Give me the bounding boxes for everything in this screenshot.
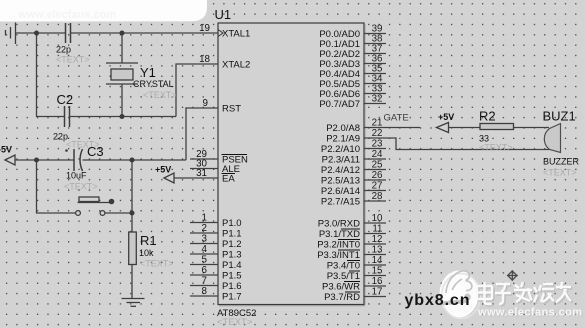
svg-text:P2.6/A14: P2.6/A14	[321, 186, 360, 197]
svg-text:U1: U1	[215, 7, 232, 22]
svg-text:31: 31	[196, 168, 207, 179]
svg-text:13: 13	[372, 245, 383, 256]
svg-text:P3.7/RD: P3.7/RD	[324, 292, 360, 303]
pin stub ALE 30	[190, 168, 218, 170]
power +5V arrow (R2)	[437, 123, 449, 133]
junction (122,33)	[120, 31, 125, 36]
svg-text:CRYSTAL: CRYSTAL	[133, 79, 174, 89]
pin numbers right	[372, 24, 383, 298]
svg-text:23: 23	[372, 139, 383, 150]
wire EA to +5V	[174, 177, 218, 179]
svg-text:1: 1	[202, 213, 207, 224]
svg-text:P3.3/INT1: P3.3/INT1	[317, 250, 360, 261]
pin stubs P1.0-P1.7 (1-8)	[190, 222, 218, 224]
svg-text:C2: C2	[57, 92, 74, 107]
pin stubs P0.0-P0.7 (39-32)	[364, 33, 386, 35]
svg-text:<TEXT>: <TEXT>	[217, 317, 253, 328]
svg-text:-5V: -5V	[0, 145, 12, 155]
svg-text:10: 10	[372, 213, 383, 224]
svg-text:11: 11	[372, 224, 382, 235]
svg-text:18: 18	[199, 54, 210, 65]
svg-text:XTAL1: XTAL1	[222, 29, 250, 40]
power -5V arrow	[5, 155, 15, 165]
junction (122,116.5)	[120, 114, 125, 119]
wire +5V to R2	[449, 127, 480, 129]
wire -5V rail to RST riser	[15, 159, 74, 161]
svg-text:3: 3	[202, 234, 208, 245]
pin names left column	[222, 29, 250, 303]
svg-text:32: 32	[372, 94, 383, 105]
svg-text:14: 14	[372, 255, 383, 266]
junction (36.5,33)	[34, 31, 39, 36]
svg-text:4: 4	[202, 244, 208, 255]
buzzer BUZ1	[544, 124, 560, 153]
svg-text:C3: C3	[87, 144, 104, 159]
svg-text:22: 22	[372, 128, 383, 139]
white erased band top-left	[0, 0, 207, 22]
wire crystal bottom	[121, 84, 123, 117]
pin names right column	[317, 29, 360, 303]
svg-text:P2.1/A9: P2.1/A9	[326, 134, 360, 145]
svg-text:25: 25	[372, 160, 383, 171]
origin marker crosshair	[507, 270, 518, 281]
svg-text:<TEXT>: <TEXT>	[143, 90, 177, 100]
watermark chinese glyph strokes	[478, 283, 572, 305]
svg-text:P1.5: P1.5	[222, 271, 242, 282]
svg-text:R1: R1	[140, 233, 157, 248]
chip U1 body	[218, 23, 364, 305]
svg-text:P0.7/AD7: P0.7/AD7	[319, 99, 360, 110]
svg-text:15: 15	[372, 266, 383, 277]
svg-text:12: 12	[372, 234, 383, 245]
watermark white disc with hand	[440, 271, 479, 318]
svg-text:P2.5/A13: P2.5/A13	[321, 176, 360, 187]
capacitor C3 10uF plates	[74, 149, 83, 171]
svg-text:P1.1: P1.1	[222, 229, 242, 240]
clock marker XTAL1	[218, 30, 223, 37]
wire R2 to buzzer	[514, 127, 550, 129]
resistor R1	[129, 232, 137, 265]
svg-text:XTAL2: XTAL2	[222, 60, 250, 71]
wire GATE net on pin 21	[364, 127, 420, 129]
svg-text:P3.4/T0: P3.4/T0	[327, 261, 360, 272]
svg-text:<TEXT>: <TEXT>	[543, 168, 577, 178]
pin numbers left	[196, 23, 210, 297]
svg-text:P1.4: P1.4	[222, 260, 242, 271]
capacitor C1 22p plates	[66, 23, 71, 43]
ground (rotated, left edge, crystal net)	[6, 23, 16, 45]
capacitor C2 22p plates	[65, 106, 70, 127]
svg-text:9: 9	[203, 98, 208, 109]
junction (132,160)	[130, 158, 135, 163]
svg-text:28: 28	[372, 191, 383, 202]
svg-text:P2.0/A8: P2.0/A8	[326, 123, 360, 134]
svg-text:P1.2: P1.2	[222, 239, 242, 250]
svg-text:P2.7/A15: P2.7/A15	[321, 197, 360, 208]
pin stubs P3.0-P3.7 (10-17)	[364, 222, 386, 224]
wire C2 to XTAL2 riser	[70, 116, 176, 118]
svg-text:BUZ1: BUZ1	[543, 109, 576, 124]
wire R1 to ground	[131, 265, 133, 299]
junction (36.5,160)	[34, 158, 39, 163]
button SW terminals	[76, 197, 110, 215]
svg-text:www.elecfans.com: www.elecfans.com	[477, 307, 582, 319]
svg-text:6: 6	[202, 265, 208, 276]
svg-text:16: 16	[372, 276, 383, 287]
svg-text:P3.0/RXD: P3.0/RXD	[318, 219, 360, 230]
svg-text:21: 21	[372, 118, 383, 129]
wire button row	[37, 160, 76, 213]
svg-text:26: 26	[372, 170, 383, 181]
svg-text:RST: RST	[222, 104, 241, 115]
overlines P3 names	[338, 229, 360, 292]
wire P2.1 to buzzer	[364, 138, 549, 150]
pin stubs P2.2-P2.7 (23-28)	[364, 148, 386, 150]
wire XTAL2	[176, 64, 218, 117]
wire RST	[186, 108, 218, 160]
wire crystal top	[121, 33, 123, 63]
svg-text:<TEXT>: <TEXT>	[64, 182, 98, 192]
svg-text:7: 7	[202, 276, 207, 287]
svg-text:P3.6/WR: P3.6/WR	[322, 282, 360, 293]
pin stub PSEN 29	[190, 158, 218, 160]
svg-text:10k: 10k	[139, 248, 154, 258]
ground (bottom of R1)	[122, 299, 145, 307]
wire C1 to XTAL1 pin 19	[71, 32, 218, 34]
svg-text:5: 5	[202, 255, 208, 266]
svg-text:Y1: Y1	[140, 65, 156, 80]
svg-text:P1.7: P1.7	[222, 292, 242, 303]
svg-text:P3.1/TXD: P3.1/TXD	[319, 229, 360, 240]
wire R1 riser	[131, 160, 133, 232]
svg-text:+5V: +5V	[438, 112, 454, 122]
svg-text:www.elecfans.com: www.elecfans.com	[17, 9, 116, 21]
button actuator dot	[109, 199, 115, 205]
svg-text:27: 27	[372, 181, 383, 192]
junction (132,213)	[130, 211, 135, 216]
svg-text:19: 19	[199, 23, 210, 34]
svg-text:+5V: +5V	[155, 165, 171, 175]
svg-text:P2.2/A10: P2.2/A10	[321, 144, 360, 155]
svg-text:BUZZER: BUZZER	[543, 157, 580, 167]
svg-text:P2.3/A11: P2.3/A11	[322, 155, 360, 166]
svg-text:24: 24	[372, 149, 383, 160]
wire vertical to C2	[37, 33, 65, 117]
svg-text:8: 8	[202, 286, 208, 297]
polarity mark C3	[65, 149, 68, 152]
svg-text:<TEXT>: <TEXT>	[140, 259, 174, 269]
wire ground to C1	[16, 32, 66, 34]
svg-text:EA: EA	[222, 174, 235, 185]
svg-text:P1.3: P1.3	[222, 250, 242, 261]
svg-text:R2: R2	[479, 109, 496, 124]
svg-text:ybx8.cn: ybx8.cn	[405, 292, 471, 309]
power +5V arrow (EA)	[164, 173, 174, 183]
wire button to R1 riser	[105, 212, 132, 214]
svg-text:17: 17	[372, 287, 383, 298]
svg-text:P1.6: P1.6	[222, 281, 242, 292]
svg-text:P3.5/T1: P3.5/T1	[327, 271, 360, 282]
svg-text:2: 2	[202, 223, 207, 234]
svg-text:GATE: GATE	[384, 113, 409, 124]
svg-text:10uF: 10uF	[66, 171, 87, 181]
crystal Y1	[106, 63, 138, 84]
svg-text:<TEXT>: <TEXT>	[56, 55, 90, 65]
svg-text:P3.2/INT0: P3.2/INT0	[317, 240, 360, 251]
svg-text:P2.4/A12: P2.4/A12	[321, 165, 360, 176]
svg-text:<TEXT>: <TEXT>	[479, 143, 513, 153]
overline EA	[222, 173, 236, 175]
resistor R2	[480, 124, 514, 130]
svg-text:22p: 22p	[56, 45, 71, 55]
junction dots	[34, 31, 135, 216]
overline PSEN	[222, 154, 248, 156]
svg-text:P1.0: P1.0	[222, 218, 242, 229]
